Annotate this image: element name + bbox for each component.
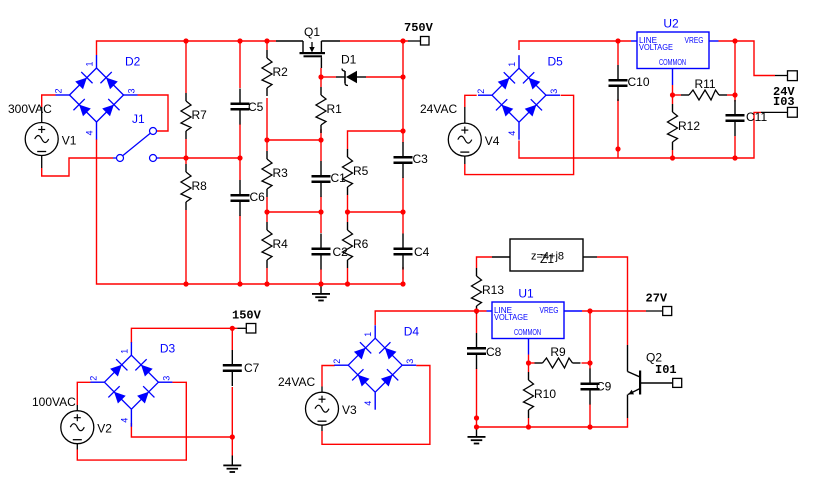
svg-text:1: 1 <box>85 61 95 66</box>
svg-text:D2: D2 <box>125 55 141 69</box>
svg-text:24VAC: 24VAC <box>420 102 457 116</box>
svg-text:3: 3 <box>405 359 415 364</box>
svg-text:C9: C9 <box>596 380 612 394</box>
svg-text:COMMON: COMMON <box>514 328 541 337</box>
svg-text:4: 4 <box>85 130 95 135</box>
svg-text:1: 1 <box>363 332 373 337</box>
svg-text:1: 1 <box>507 62 517 67</box>
svg-text:R6: R6 <box>353 237 369 251</box>
svg-text:U2: U2 <box>663 17 679 31</box>
svg-text:R8: R8 <box>192 179 208 193</box>
svg-text:I03: I03 <box>773 95 795 109</box>
svg-text:3: 3 <box>127 88 137 93</box>
svg-text:C5: C5 <box>248 100 264 114</box>
svg-text:VREG: VREG <box>540 306 559 315</box>
svg-text:D3: D3 <box>160 342 176 356</box>
svg-text:D4: D4 <box>404 325 420 339</box>
svg-text:4: 4 <box>119 418 129 423</box>
svg-text:VOLTAGE: VOLTAGE <box>639 43 673 52</box>
svg-text:D1: D1 <box>341 53 357 67</box>
svg-text:V4: V4 <box>485 134 500 148</box>
svg-text:100VAC: 100VAC <box>32 395 76 409</box>
svg-text:2: 2 <box>332 359 342 364</box>
svg-text:R13: R13 <box>482 283 504 297</box>
svg-text:U1: U1 <box>518 287 534 301</box>
svg-text:C2: C2 <box>333 245 349 259</box>
svg-text:C10: C10 <box>628 75 650 89</box>
svg-text:C1: C1 <box>331 171 347 185</box>
svg-text:R9: R9 <box>550 345 566 359</box>
svg-text:Z1: Z1 <box>540 252 554 266</box>
svg-text:C3: C3 <box>413 152 429 166</box>
svg-text:4: 4 <box>363 401 373 406</box>
svg-text:C7: C7 <box>244 361 260 375</box>
svg-text:V3: V3 <box>342 403 357 417</box>
svg-text:150V: 150V <box>232 309 262 323</box>
svg-text:R5: R5 <box>353 164 369 178</box>
svg-text:R11: R11 <box>694 77 715 91</box>
svg-text:V1: V1 <box>62 134 77 148</box>
svg-text:I01: I01 <box>655 363 677 377</box>
svg-text:R2: R2 <box>273 65 289 79</box>
svg-text:4: 4 <box>507 131 517 136</box>
svg-text:R10: R10 <box>534 387 556 401</box>
svg-text:1: 1 <box>119 349 129 354</box>
svg-text:300VAC: 300VAC <box>8 102 52 116</box>
svg-text:27V: 27V <box>646 292 668 306</box>
svg-text:3: 3 <box>549 89 559 94</box>
svg-text:C6: C6 <box>250 190 266 204</box>
svg-text:D5: D5 <box>548 55 564 69</box>
svg-text:2: 2 <box>88 376 98 381</box>
svg-text:R12: R12 <box>678 119 700 133</box>
svg-text:750V: 750V <box>404 21 434 35</box>
svg-text:J1: J1 <box>132 112 145 126</box>
svg-text:VREG: VREG <box>685 36 704 45</box>
svg-text:Q1: Q1 <box>304 25 320 39</box>
svg-text:24VAC: 24VAC <box>278 375 315 389</box>
svg-text:C4: C4 <box>414 245 430 259</box>
svg-text:3: 3 <box>161 376 171 381</box>
svg-text:R7: R7 <box>192 108 208 122</box>
svg-text:2: 2 <box>476 89 486 94</box>
svg-text:R1: R1 <box>327 102 343 116</box>
svg-text:2: 2 <box>54 88 64 93</box>
svg-text:V2: V2 <box>97 422 112 436</box>
svg-text:C8: C8 <box>486 345 502 359</box>
svg-text:R3: R3 <box>273 166 289 180</box>
svg-text:R4: R4 <box>273 237 289 251</box>
svg-text:COMMON: COMMON <box>659 58 686 67</box>
svg-text:VOLTAGE: VOLTAGE <box>494 313 528 322</box>
